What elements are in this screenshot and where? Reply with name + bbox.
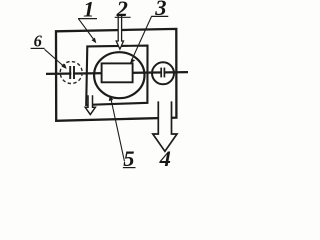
svg-text:3: 3 xyxy=(154,0,166,20)
underline label 3 xyxy=(151,15,168,17)
svg-text:4: 4 xyxy=(159,146,171,171)
leader arrowhead 5 xyxy=(109,95,114,101)
outer housing rectangle (part 1 casing) xyxy=(56,29,176,121)
leader line for label 3 xyxy=(132,17,152,61)
wire: horizontal shaft centerline xyxy=(46,72,188,74)
hollow outlet arrow (big, part 4, through housing bottom) xyxy=(153,101,177,151)
svg-text:6: 6 xyxy=(34,32,43,51)
left coupling gap (white slit) xyxy=(71,67,73,80)
drum ellipse (part 5) xyxy=(94,52,144,98)
right valve circle xyxy=(152,62,174,84)
left coupling tick bars xyxy=(69,66,71,79)
underline label 6 xyxy=(31,47,45,49)
left pump circle (part 6), dashed xyxy=(60,62,82,84)
inner small rectangle (part 3) xyxy=(102,63,133,82)
right coupling tick bars xyxy=(160,68,162,78)
hollow inlet arrow from label 2 (down into drum) xyxy=(116,14,123,49)
underline label 2 xyxy=(115,16,131,18)
leader line for label 6 xyxy=(45,49,65,66)
leader arrowhead 3 xyxy=(130,59,135,64)
underline label 5 xyxy=(123,167,136,169)
inner tank rectangle xyxy=(86,46,147,105)
right coupling gap (white slit) xyxy=(162,68,164,78)
underline label 1 xyxy=(78,18,97,20)
leader line for label 1 xyxy=(79,19,95,41)
leader arrowhead 6 xyxy=(62,64,67,69)
hollow drain arrow (small, left, through tank bottom) xyxy=(85,95,95,114)
leader line for label 5 xyxy=(111,98,125,162)
leader arrowhead 1 xyxy=(92,38,97,44)
